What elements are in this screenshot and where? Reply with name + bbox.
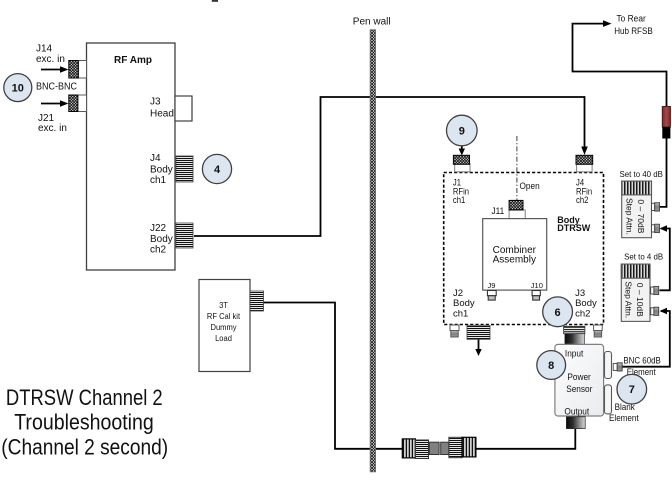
svg-text:BNC 60dB: BNC 60dB bbox=[623, 355, 661, 366]
svg-text:Output: Output bbox=[564, 406, 589, 416]
svg-text:RF Cal kit: RF Cal kit bbox=[207, 312, 241, 322]
svg-text:J14: J14 bbox=[36, 44, 53, 55]
svg-text:Load: Load bbox=[215, 334, 232, 344]
svg-text:(Channel 2 second): (Channel 2 second) bbox=[1, 435, 168, 460]
svg-text:J9: J9 bbox=[488, 281, 496, 290]
svg-text:3T: 3T bbox=[219, 301, 228, 311]
svg-text:ch1: ch1 bbox=[453, 194, 466, 205]
svg-text:0 – 70dB: 0 – 70dB bbox=[636, 199, 646, 233]
svg-text:RF Amp: RF Amp bbox=[114, 55, 152, 66]
svg-text:6: 6 bbox=[555, 307, 561, 319]
svg-text:Set to 4 dB: Set to 4 dB bbox=[624, 252, 664, 261]
svg-text:DTRSW: DTRSW bbox=[557, 223, 590, 233]
svg-text:ch2: ch2 bbox=[575, 308, 590, 319]
svg-text:To Rear: To Rear bbox=[617, 13, 646, 24]
svg-text:Step Attn.: Step Attn. bbox=[625, 198, 635, 235]
svg-text:Pen wall: Pen wall bbox=[353, 16, 391, 27]
svg-text:ch2: ch2 bbox=[576, 194, 589, 205]
svg-text:8: 8 bbox=[548, 360, 554, 372]
svg-text:10: 10 bbox=[12, 83, 24, 95]
svg-text:Input: Input bbox=[565, 348, 584, 358]
svg-text:Hub RFSB: Hub RFSB bbox=[614, 26, 653, 37]
svg-text:Dummy: Dummy bbox=[210, 323, 236, 333]
svg-text:ch1: ch1 bbox=[150, 175, 167, 186]
svg-text:J3: J3 bbox=[575, 288, 585, 299]
svg-text:exc. in: exc. in bbox=[36, 54, 65, 65]
svg-text:Body: Body bbox=[150, 234, 173, 245]
svg-text:0 – 10dB: 0 – 10dB bbox=[635, 283, 645, 317]
svg-text:ch2: ch2 bbox=[150, 245, 167, 256]
svg-text:J10: J10 bbox=[531, 281, 543, 290]
svg-text:DTRSW Channel 2: DTRSW Channel 2 bbox=[6, 385, 163, 410]
svg-text:Element: Element bbox=[609, 413, 639, 424]
svg-text:Set to 40 dB: Set to 40 dB bbox=[620, 170, 664, 179]
svg-text:Open: Open bbox=[520, 181, 540, 191]
svg-text:BNC-BNC: BNC-BNC bbox=[36, 81, 77, 93]
svg-text:Assembly: Assembly bbox=[493, 255, 536, 266]
svg-text:Troubleshooting: Troubleshooting bbox=[14, 410, 154, 435]
svg-text:9: 9 bbox=[459, 126, 465, 138]
svg-text:J2: J2 bbox=[453, 288, 463, 299]
svg-text:Power: Power bbox=[567, 372, 591, 382]
svg-text:Body: Body bbox=[150, 165, 173, 176]
svg-text:7: 7 bbox=[629, 384, 635, 396]
svg-text:Sensor: Sensor bbox=[566, 384, 592, 394]
svg-text:J11: J11 bbox=[492, 206, 505, 216]
svg-text:Step Attn.: Step Attn. bbox=[624, 281, 634, 318]
svg-text:4: 4 bbox=[214, 164, 221, 176]
svg-text:exc. in: exc. in bbox=[38, 123, 67, 134]
svg-text:J22: J22 bbox=[150, 223, 167, 234]
svg-text:J3: J3 bbox=[150, 97, 161, 108]
svg-text:J4: J4 bbox=[150, 153, 161, 164]
svg-text:Head: Head bbox=[150, 109, 174, 120]
svg-text:ch1: ch1 bbox=[453, 308, 468, 319]
